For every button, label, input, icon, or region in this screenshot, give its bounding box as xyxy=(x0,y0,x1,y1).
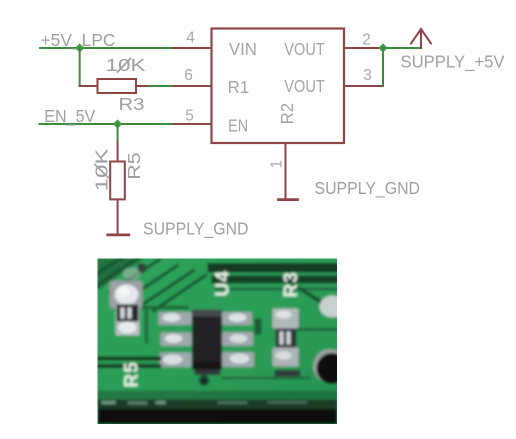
junction on +5V_LPC xyxy=(75,43,84,52)
ground symbol (left, R5) xyxy=(108,233,129,236)
photo: SMD resistor lower-left (E01 marking) xyxy=(116,304,140,336)
photo: bottom black band xyxy=(98,409,338,425)
photo: via below chip xyxy=(199,375,210,386)
svg-text:R2: R2 xyxy=(277,103,297,125)
svg-text:R3: R3 xyxy=(281,271,302,297)
wire junction down to pin 3 xyxy=(382,48,384,86)
IC U4 body xyxy=(212,29,345,144)
wire junction to supply arrow xyxy=(383,47,421,49)
svg-text:R3: R3 xyxy=(119,94,145,114)
photo: diagonal traces right xyxy=(294,285,336,313)
svg-text:VOUT: VOUT xyxy=(284,39,325,59)
svg-text:U4: U4 xyxy=(212,270,233,296)
svg-text:SUPPLY_GND: SUPPLY_GND xyxy=(143,219,249,240)
photo: thin trace below chip right xyxy=(223,377,310,379)
photo: IC chip U4 (SOT-23-5) xyxy=(192,310,222,376)
photo: drill hole bottom-right xyxy=(313,349,347,383)
photo: bottom dark stripe xyxy=(98,391,338,400)
svg-text:SUPPLY_+5V: SUPPLY_+5V xyxy=(401,51,505,72)
photo: solder pads right of chip xyxy=(222,312,254,367)
pin 1 stub (R2, bottom) xyxy=(285,143,287,198)
svg-text:3: 3 xyxy=(363,67,372,84)
photo: dark horizontal traces top-right xyxy=(208,263,340,273)
photo: horizontal traces lower-left xyxy=(98,357,160,361)
resistor R5 body xyxy=(110,162,125,200)
junction at pin 2 / VOUT net xyxy=(378,43,387,52)
photo: dark patch left of right column xyxy=(255,319,262,335)
photo: dark shading top-left corner xyxy=(98,259,144,291)
photo: silkscreen R5 (rotated) xyxy=(122,361,143,387)
value label 10K of R3 (slashed zero) xyxy=(106,55,146,75)
photo: vertical trace left of chip xyxy=(145,309,148,343)
photo: silkscreen U4 (rotated) xyxy=(212,270,233,296)
photo: partial bright component far right edge xyxy=(320,296,346,318)
wire junction down to R5 xyxy=(117,124,119,142)
resistor R3 right lead xyxy=(136,85,148,87)
pin 5 stub (EN) xyxy=(174,123,212,125)
PCB photo of U4 area xyxy=(96,256,348,427)
photo: solder pads left of chip xyxy=(159,312,192,367)
pin 3 stub (VOUT bottom) xyxy=(344,85,383,87)
resistor R3 body xyxy=(98,79,137,93)
svg-text:EN_5V: EN_5V xyxy=(44,106,95,127)
photo: SMD resistor column right (E01 marking) xyxy=(273,309,301,377)
pin number 1 (rotated) xyxy=(269,160,286,169)
photo: metallic component upper-left xyxy=(110,268,143,309)
svg-text:6: 6 xyxy=(184,67,193,84)
pin name R2 (pin 1, rotated) xyxy=(277,103,297,125)
supply symbol SUPPLY_+5V (arrow) xyxy=(411,29,431,48)
ground symbol (right, pin 1) xyxy=(279,198,298,201)
photo: trace right middle xyxy=(298,328,338,331)
photo: diagonal traces upper-left xyxy=(96,256,206,311)
svg-text:5: 5 xyxy=(185,108,194,125)
wire net +5V_LPC (row A) xyxy=(40,47,174,49)
photo: horizontal trace to left pads xyxy=(114,306,188,309)
pin 2 stub (VOUT top) xyxy=(344,47,383,49)
value label 10K of R5 (rotated, slashed zero) xyxy=(91,148,111,191)
svg-text:4: 4 xyxy=(186,30,195,47)
svg-text:R1: R1 xyxy=(228,77,250,97)
svg-text:EN: EN xyxy=(228,116,248,136)
svg-text:R5: R5 xyxy=(124,152,144,180)
svg-text:1: 1 xyxy=(269,160,286,169)
svg-text:10K: 10K xyxy=(106,55,146,75)
name label R5 (rotated) xyxy=(124,152,144,180)
photo: PCB background xyxy=(96,257,340,427)
photo: dark speck upper-left xyxy=(138,264,146,273)
resistor R3 left lead xyxy=(80,85,98,87)
svg-text:VOUT: VOUT xyxy=(284,76,325,96)
pin 4 stub (VIN) xyxy=(174,47,212,49)
pin 6 stub (R1) xyxy=(174,85,212,87)
svg-text:VIN: VIN xyxy=(229,39,257,59)
svg-text:R5: R5 xyxy=(122,361,143,387)
wire from +5V junction down to R3 xyxy=(79,48,81,86)
wire net EN_5V (row C) xyxy=(40,123,174,125)
resistor R5 top lead xyxy=(117,142,119,162)
wire R3 to pin 6 xyxy=(148,85,174,87)
photo: silkscreen R3 (rotated) xyxy=(281,271,302,297)
svg-text:SUPPLY_GND: SUPPLY_GND xyxy=(315,178,421,199)
junction on EN_5V xyxy=(113,119,122,128)
svg-text:2: 2 xyxy=(362,32,371,49)
resistor R5 bottom lead xyxy=(117,199,119,233)
